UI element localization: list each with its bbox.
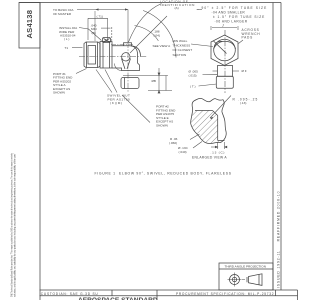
port 2 end cylinder [121,78,139,89]
elbow body [112,46,140,71]
long diagonal leader [122,95,150,123]
45 deg diagonal [130,16,167,53]
nut wrench flats [86,42,88,68]
neck [218,66,233,77]
dim to basic dia [77,9,128,11]
identification leader [129,4,162,43]
port2 dim ext lines [123,75,168,77]
dim (.71) line [88,17,108,19]
nut window [88,46,96,65]
svg-text:(.71): (.71) [97,14,103,18]
dim J [212,27,237,29]
svg-text:ENLARGED VIEW A: ENLARGED VIEW A [192,155,227,159]
svg-text:-06 AND LARGER: -06 AND LARGER [215,19,248,23]
svg-text:(.040): (.040) [179,150,187,154]
across wrench pads leader [239,40,244,44]
border frame left [39,3,41,300]
border frame right outer [280,3,282,291]
footer divider x157 [156,290,158,300]
border frame right inner [272,3,274,291]
svg-text:AS4138: AS4138 [25,10,34,39]
neck arrows [213,70,218,72]
svg-text:THIRD ANGLE PROJECTION: THIRD ANGLE PROJECTION [225,265,266,269]
blob outline [191,98,227,143]
dimensions upper [72,8,172,122]
footer divider x112 [111,290,113,296]
swivel nut outer [84,42,100,68]
svg-text:PADS: PADS [242,36,253,40]
svg-text:Ø F: Ø F [242,69,247,73]
svg-text:SEE VIEW A: SEE VIEW A [153,44,172,48]
svg-text:(B): (B) [92,31,96,35]
svg-text:( L ): ( L ) [64,37,69,41]
T1 leader [72,47,83,49]
svg-text:( K )( M ): ( K )( M ) [110,101,122,105]
svg-text:(.015): (.015) [189,73,197,77]
svg-text:SHOWN: SHOWN [53,91,65,95]
svg-text:PROCUREMENT SPECIFICATION: MIL: PROCUREMENT SPECIFICATION: MIL-P-25732 [176,292,274,296]
svg-text:(A): (A) [175,6,179,10]
flange [216,76,233,88]
svg-text:SAE Technical Standards Board: SAE Technical Standards Board Rules prov… [10,152,13,297]
svg-text:J: J [222,23,224,27]
bore profile lines [195,111,225,141]
third angle symbol cone [242,274,262,286]
svg-text:SECTION: SECTION [173,53,187,57]
hex [211,35,238,66]
body collar [100,42,112,69]
svg-text:(.13): (.13) [240,101,246,105]
svg-text:ISSUED 1992-11 REAFFIRMED: ISSUED 1992-11 REAFFIRMED 2006-10 [276,191,280,288]
inner seat circle [214,39,236,61]
swivel nut leaders [96,70,112,93]
svg-text:OF CLOSEST: OF CLOSEST [173,48,193,52]
port1 leader [76,69,87,74]
svg-text:SHOWN: SHOWN [156,124,168,128]
third angle projection box [219,263,273,290]
svg-text:T1: T1 [65,46,69,50]
wrench pad chord [214,41,227,54]
svg-text:OF MASTER: OF MASTER [53,12,72,16]
svg-text:ØB: ØB [152,79,156,83]
svg-text:( T ): ( T ) [190,84,196,88]
horizontal centerline [79,56,147,58]
end view centerline [224,30,226,93]
(B) arrow [101,27,111,29]
svg-text:voluntary, and its applicabili: voluntary, and its applicability and sui… [14,153,17,297]
svg-text:-04 AND SMALLER: -04 AND SMALLER [212,10,246,14]
svg-text:THICKNESS: THICKNESS [173,44,191,48]
lockwire boss [103,38,111,43]
svg-text:CUSTODIAN: SAE G-3D SU: CUSTODIAN: SAE G-3D SU [41,292,99,296]
swing arcs [115,4,177,71]
nut vertical centerline [94,11,96,41]
corner centerline horizontal [111,44,133,46]
border frame top [19,2,281,4]
install wire leader [79,28,102,41]
footer right edge [297,290,299,300]
leaders for enlarged view [190,96,231,150]
leaders from labels [203,73,218,75]
footer line 1 [40,289,298,291]
svg-text:.13 (C): .13 (C) [211,151,226,155]
text blocks around side view [53,0,267,105]
note leader dash [197,9,202,11]
svg-text:(.060): (.060) [169,141,177,145]
svg-text:FIGURE 1 ELBOW 90°, SWIVEL, R: FIGURE 1 ELBOW 90°, SWIVEL, REDUCED BODY… [95,172,232,176]
svg-text:—: — [196,7,200,11]
elbow outer bend line [131,46,141,57]
AS4138 title box [19,3,40,49]
centerlines of side view [79,11,147,93]
vertical centerline elbow [127,42,129,93]
cone seat circle [122,53,130,61]
cone seat V [122,59,131,70]
third angle symbol circle [228,273,242,287]
arrows on vertical dim [158,73,160,76]
footer line 2 [40,295,298,297]
svg-text:(.04): (.04) [154,33,160,37]
elbow corner arcs [115,64,122,71]
svg-text:MIN WALL: MIN WALL [173,39,188,43]
